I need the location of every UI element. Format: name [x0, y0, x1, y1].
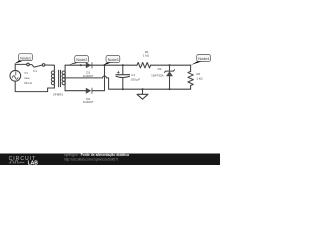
- svg-text:1N4007: 1N4007: [83, 100, 94, 104]
- svg-text:Node3: Node3: [108, 58, 119, 62]
- svg-text:1 kΩ: 1 kΩ: [143, 54, 150, 58]
- svg-text:LAB: LAB: [28, 160, 39, 165]
- svg-text:100 µF: 100 µF: [131, 77, 141, 81]
- svg-text:1 kΩ: 1 kΩ: [196, 76, 203, 80]
- svg-text:Node2: Node2: [76, 58, 87, 62]
- svg-text:http://circuitlab.com/c/q3wbcz: http://circuitlab.com/c/q3wbcze/5dk57f: [64, 157, 118, 161]
- svg-text:D3: D3: [158, 67, 162, 71]
- svg-text:sine: sine: [24, 76, 30, 80]
- svg-text:Node4: Node4: [198, 57, 209, 61]
- svg-text:V1: V1: [24, 71, 28, 75]
- svg-text:1N4007: 1N4007: [83, 74, 94, 78]
- svg-text:1N4733A: 1N4733A: [151, 73, 164, 77]
- svg-text:F1: F1: [33, 69, 37, 73]
- svg-text:Node1: Node1: [20, 56, 31, 60]
- svg-text:60 Hz: 60 Hz: [24, 81, 32, 85]
- svg-text:XFMR1: XFMR1: [53, 93, 63, 97]
